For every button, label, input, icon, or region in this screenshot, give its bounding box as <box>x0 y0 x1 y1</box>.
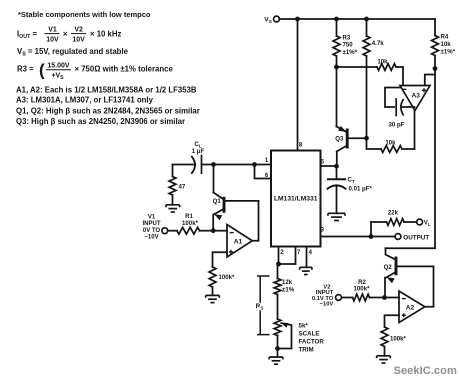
svg-text:V2: V2 <box>74 27 83 34</box>
wire 47 ohm bottom <box>172 195 174 205</box>
svg-text:15.00V: 15.00V <box>47 63 70 70</box>
svg-text:(: ( <box>39 61 45 80</box>
wire R3 bottom <box>336 56 338 67</box>
wire VS rail drop to R4 <box>434 19 436 36</box>
op-amp A1 <box>227 225 252 258</box>
resistor 4.7k <box>363 36 370 56</box>
node R4 bottom / A3 plus input <box>433 66 438 71</box>
A2 minus sign <box>402 298 406 300</box>
node CL / Q1 collector <box>211 162 216 167</box>
svg-text:750: 750 <box>343 42 354 49</box>
trimmer 5k scale factor trim <box>274 319 291 349</box>
terminal VS <box>274 16 280 22</box>
ground A2 100k <box>377 356 391 363</box>
wire pin 8 to VS <box>297 19 299 151</box>
svg-text:4.7k: 4.7k <box>372 40 384 47</box>
node trimmer bottom <box>275 346 280 351</box>
wire pin6 tie <box>255 165 272 179</box>
node Q3 base / 4.7k / 10k-b <box>364 136 369 141</box>
transistor Q2 NPN <box>385 248 434 297</box>
capacitor CL 1uF <box>191 156 201 174</box>
wire CL to pin1 <box>202 164 272 166</box>
svg-text:+VS: +VS <box>51 73 64 81</box>
svg-text:47: 47 <box>179 184 186 191</box>
terminal OUTPUT <box>395 234 401 240</box>
wire VS rail horizontal <box>279 18 435 20</box>
wire R2 to node <box>370 297 385 299</box>
node R2 / Q2 emitter / A2 minus <box>382 295 387 300</box>
svg-text:× 10 kHz: × 10 kHz <box>90 30 122 39</box>
terminal V2 input <box>336 295 342 301</box>
svg-text:−10V: −10V <box>144 235 158 241</box>
wire 12k to trimmer <box>277 295 279 320</box>
svg-text:0V TO: 0V TO <box>143 228 161 234</box>
svg-text:OUTPUT: OUTPUT <box>403 235 429 242</box>
svg-text:SeekIC.com: SeekIC.com <box>394 365 457 377</box>
resistor 10k A3 output to Q3 base <box>381 146 402 153</box>
wire node to 12k <box>277 264 279 279</box>
svg-text:12k: 12k <box>282 279 293 286</box>
resistor 47 <box>169 177 176 196</box>
wire V1 to R1 <box>168 230 177 232</box>
A3 minus sign <box>402 88 406 90</box>
wire 10k-b right <box>402 148 415 150</box>
wire 4.7k bottom to Q3 base node <box>366 56 368 138</box>
wire pin 4 down <box>306 247 308 268</box>
svg-text:30 pF: 30 pF <box>389 122 405 129</box>
transistor Q1 NPN <box>213 193 258 231</box>
wire pin 2 down <box>278 247 280 265</box>
svg-text:INPUT: INPUT <box>143 221 161 227</box>
terminal V1 input <box>162 228 168 234</box>
ground RS chain <box>269 357 283 364</box>
resistor 100k A2 plus to ground <box>381 327 388 347</box>
svg-text:10V: 10V <box>72 36 85 43</box>
formula: IOUT = V1/10V x V2/10V x 10 kHz <box>17 27 122 44</box>
svg-text:A1, A2: Each is 1/2 LM158/LM35: A1, A2: Each is 1/2 LM158/LM358A or 1/2 … <box>16 85 197 94</box>
svg-text:LM131/LM331: LM131/LM331 <box>274 196 318 203</box>
node R1 / Q1 emitter / A1 minus <box>211 228 216 233</box>
svg-text:R3 =: R3 = <box>17 65 34 74</box>
wire Q1 collector <box>213 165 215 193</box>
svg-text:R4: R4 <box>441 34 449 41</box>
svg-text:×: × <box>63 30 68 39</box>
wire Q3 emitter from R3 node <box>336 67 338 127</box>
wire 47 ohm top <box>172 165 174 177</box>
wire A2 output to Q2 base <box>425 266 434 306</box>
svg-text:*Stable components with low te: *Stable components with low tempco <box>18 10 151 19</box>
wire to bottom ground <box>277 349 279 358</box>
svg-text:10k: 10k <box>377 59 388 66</box>
transistor Q3 PNP <box>337 126 367 166</box>
capacitor CT 0.01uF <box>327 166 346 214</box>
node pin3 / 22k tap <box>369 234 374 239</box>
A1 minus sign <box>230 232 234 234</box>
svg-text:A1: A1 <box>234 238 243 245</box>
wire A1 minus input <box>213 230 227 232</box>
svg-text:R1: R1 <box>185 213 193 220</box>
svg-text:× 750Ω with ±1% tolerance: × 750Ω with ±1% tolerance <box>75 65 174 74</box>
svg-text:A3: A3 <box>411 93 420 100</box>
wire pin 5 to Q3 collector node <box>321 165 337 167</box>
node VS-4.7k <box>364 17 369 22</box>
svg-text:100k*: 100k* <box>219 274 236 281</box>
formula: R3 = (15.00V / +VS) x 750 ohm with 1% tolerance <box>17 61 173 81</box>
resistor R3 750 <box>333 36 340 56</box>
resistor R2 100k <box>353 294 370 301</box>
node VS-R3 <box>334 17 339 22</box>
wire 4.7k top <box>366 19 368 36</box>
svg-text:10V: 10V <box>46 36 59 43</box>
svg-text:VS = 15V, regulated and stable: VS = 15V, regulated and stable <box>17 47 129 58</box>
svg-text:A2: A2 <box>406 304 415 311</box>
svg-text:SCALE: SCALE <box>299 331 320 338</box>
wire pin2-pin7 tie <box>278 263 296 265</box>
svg-text:5k*: 5k* <box>299 323 309 330</box>
wire 10k to A3 minus input <box>396 67 403 86</box>
ground pin 4 <box>300 267 312 274</box>
svg-text:R3: R3 <box>343 35 351 42</box>
svg-text:10k: 10k <box>385 140 396 147</box>
svg-text:Q1: Q1 <box>213 198 222 205</box>
wire 22k to VL <box>404 221 417 223</box>
svg-text:100k*: 100k* <box>354 285 371 292</box>
svg-text:Q2: Q2 <box>384 264 393 271</box>
svg-text:FACTOR: FACTOR <box>299 339 325 346</box>
svg-text:Q1, Q2: High β such as 2N2484,: Q1, Q2: High β such as 2N2484, 2N3565 or… <box>16 106 200 115</box>
svg-text:10k: 10k <box>441 41 452 48</box>
wire A3 plus input to R4 node <box>425 75 435 86</box>
wire 100k to ground <box>212 287 214 295</box>
svg-text:V1: V1 <box>48 27 57 34</box>
ground A1 100k <box>206 295 220 302</box>
svg-text:V1: V1 <box>148 215 156 221</box>
capacitor 30 pF feedback <box>385 88 415 116</box>
wire pin 7 down <box>295 247 297 265</box>
resistor R4 10k <box>432 36 439 56</box>
svg-text:0.01 μF*: 0.01 μF* <box>349 186 373 193</box>
wire right rail R4 down to Q2 collector <box>386 56 436 249</box>
svg-text:TRIM: TRIM <box>299 347 314 354</box>
ground 47 ohm <box>166 205 180 212</box>
resistor 10k to A3 inverting input <box>377 64 396 71</box>
op-amp A3 <box>400 86 430 111</box>
wire pin 3 to OUTPUT <box>321 236 395 238</box>
IC U1 LM131/LM331 box <box>271 151 321 247</box>
svg-text:−10V: −10V <box>320 302 334 308</box>
resistor 22k <box>387 219 405 226</box>
wire top left node horizontal <box>173 164 196 166</box>
node pin5 / Q3 collector / CT <box>334 164 339 169</box>
svg-text:±1%*: ±1%* <box>343 49 358 56</box>
op-amp A2 <box>399 291 425 323</box>
wire 22k tap up <box>370 222 372 237</box>
resistor 100k A1 plus to ground <box>209 267 216 287</box>
ground CT <box>328 213 345 220</box>
bracket RS <box>257 276 270 335</box>
node pin1 / pin6 tie <box>252 162 257 167</box>
A2 plus sign <box>402 313 406 317</box>
wire A2 100k to ground <box>384 347 386 356</box>
resistor R1 100k <box>177 227 200 234</box>
svg-text:22k: 22k <box>388 210 399 217</box>
svg-text:±1%*: ±1%* <box>441 49 456 56</box>
svg-text:100k*: 100k* <box>390 336 407 343</box>
svg-text:±1%: ±1% <box>282 286 295 293</box>
node pin2/7 to RS chain <box>276 262 281 267</box>
wire trimmer bottom <box>277 336 279 349</box>
wire to 22k <box>371 221 387 223</box>
wire A1 plus input to 100k <box>213 252 228 267</box>
wire A2 minus input <box>385 297 400 299</box>
A3 plus sign <box>422 88 426 92</box>
svg-text:100k*: 100k* <box>182 220 199 227</box>
node VS-pin8 <box>295 17 300 22</box>
svg-text:Q3: High β such as 2N4250, 2N3: Q3: High β such as 2N4250, 2N3906 or sim… <box>16 117 185 126</box>
svg-text:A3: LM301A, LM307, or LF13741: A3: LM301A, LM307, or LF13741 only <box>16 96 154 105</box>
wire A2 plus input to 100k <box>385 315 400 327</box>
wire V2 to R2 <box>341 297 352 299</box>
wire R1 to node <box>200 230 214 232</box>
A1 plus sign <box>229 250 233 254</box>
wire node to 10k-A3 <box>337 66 378 68</box>
wire A3 output down <box>414 111 416 150</box>
wire R3 top <box>336 19 338 36</box>
terminal VL <box>417 219 423 225</box>
resistor 12k 1% <box>274 279 281 295</box>
wire A1 output to Q1 base <box>252 201 258 241</box>
node R3 bottom / Q3 emitter / 10k to A3 <box>334 65 339 70</box>
svg-text:1 μF: 1 μF <box>192 148 205 155</box>
wire 10k-b left to Q3 base node <box>367 138 382 149</box>
svg-text:Q3: Q3 <box>335 136 344 143</box>
